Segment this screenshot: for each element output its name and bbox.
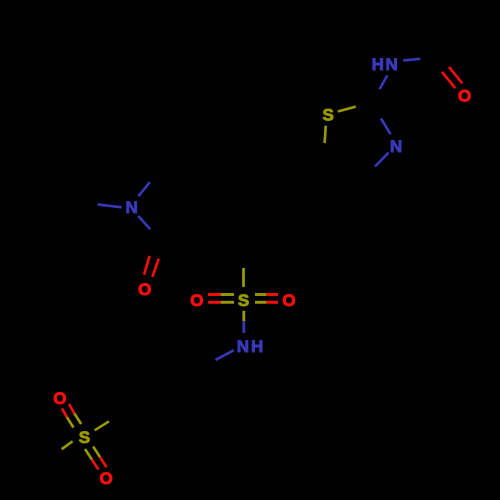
double bond S=O right: olive halves	[255, 293, 266, 296]
bond N(H)-C(aryl) half (blue)	[216, 350, 234, 360]
bond S-N(H) sulfonamide: S half (olive)	[242, 311, 245, 321]
double bond C=O acetyl (O halves, red)	[442, 72, 455, 88]
svg-text:O: O	[99, 469, 112, 488]
svg-text:N: N	[390, 137, 402, 156]
svg-text:S: S	[238, 291, 249, 310]
bond N(amine)-C(=O) half (blue)	[138, 216, 150, 229]
bond N3(thiazole)-C4 half (blue)	[375, 153, 389, 167]
double bond S=O left: olive halves	[221, 293, 234, 296]
svg-text:N: N	[385, 55, 397, 74]
double bond S=O methylsulfonyl lower: olive halves	[85, 449, 92, 460]
bond S(methylsulfonyl)-C(chain) half (olive)	[95, 421, 109, 430]
bond S1(thiazole)-C5 half (olive)	[325, 126, 326, 143]
double bond S=O methylsulfonyl upper: olive halves	[67, 417, 74, 427]
svg-text:O: O	[458, 87, 471, 106]
bond S1(thiazole)-C2 half (olive)	[338, 107, 356, 112]
svg-text:N: N	[125, 198, 137, 217]
bond N(amine)-CH3 half (blue)	[98, 204, 122, 207]
double bond S=O methylsulfonyl lower: red halves	[92, 460, 98, 470]
double bond S=O right: red halves	[266, 293, 278, 296]
double bond S=O methylsulfonyl upper: red halves	[62, 409, 67, 418]
svg-text:O: O	[190, 291, 203, 310]
svg-text:N: N	[237, 337, 249, 356]
bond S(methylsulfonyl)-CH3 half (olive)	[62, 441, 73, 449]
bond N(acetamido)-C2(thiazole) half (blue)	[380, 75, 388, 89]
bond N(acetamido)-C(=O) half (blue)	[403, 59, 420, 61]
svg-text:O: O	[53, 389, 66, 408]
bond S-N(H) sulfonamide: N half (blue)	[242, 321, 245, 333]
svg-text:O: O	[138, 280, 151, 299]
svg-text:S: S	[79, 428, 90, 447]
svg-text:H: H	[251, 337, 263, 356]
svg-text:H: H	[372, 55, 384, 74]
bond N3(thiazole)=C2 half (blue)	[381, 119, 391, 135]
bond N(amine)-C up-right half (blue)	[138, 182, 149, 196]
svg-text:O: O	[282, 291, 295, 310]
svg-text:S: S	[323, 105, 334, 124]
bond S(sulfonyl)-C(aryl) half (olive)	[242, 268, 245, 287]
double bond C=O amide (O halves, red)	[144, 256, 150, 275]
double bond S=O left: red halves	[208, 293, 221, 296]
